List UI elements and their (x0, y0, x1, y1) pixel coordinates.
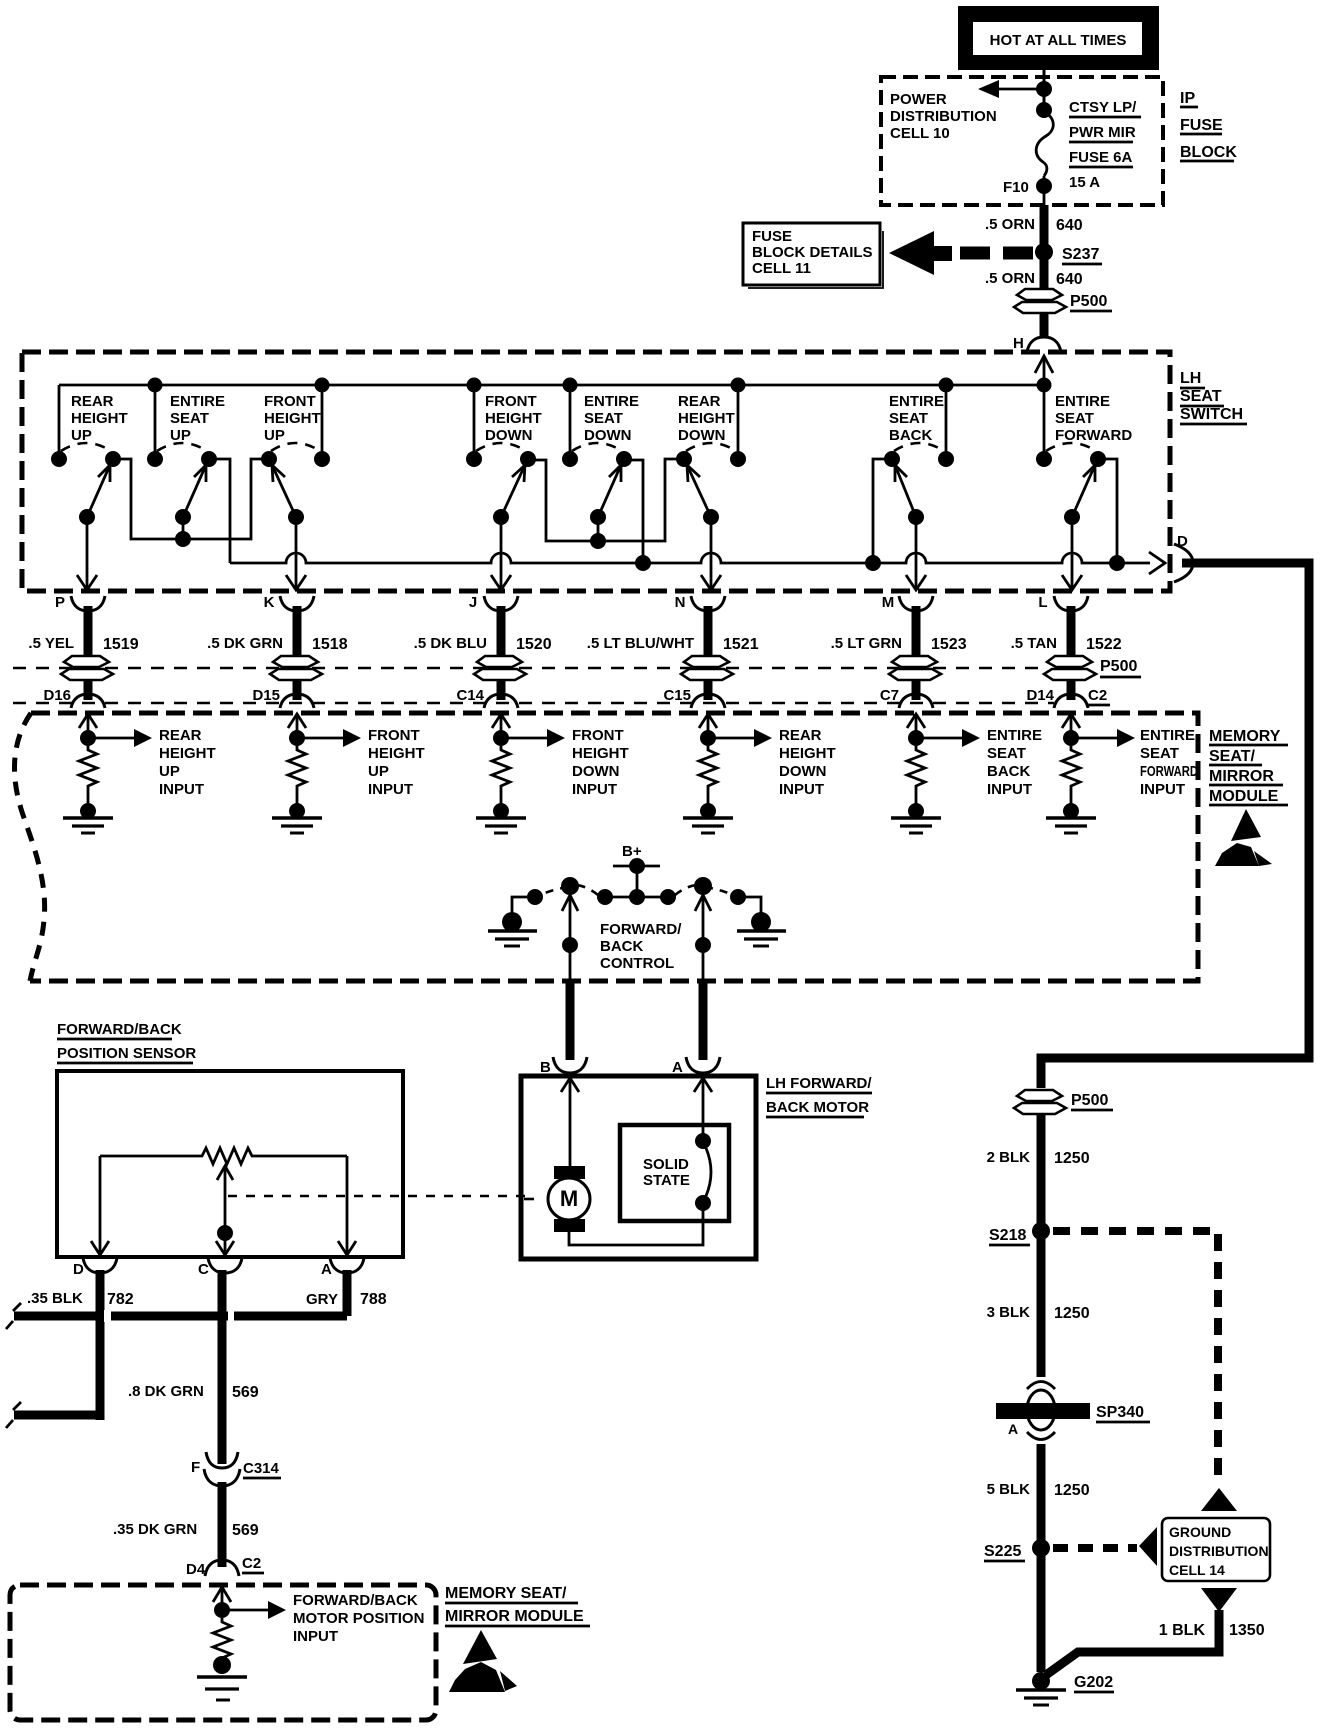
svg-text:DOWN: DOWN (678, 427, 726, 444)
wire to H (1040, 313, 1049, 338)
svg-text:POWER: POWER (890, 91, 947, 108)
svg-text:C314: C314 (243, 1460, 280, 1477)
svg-text:L: L (1038, 594, 1047, 611)
module input FRONT HEIGHT UP INPUT (272, 714, 425, 833)
svg-text:REAR: REAR (678, 393, 721, 410)
node outer right (730, 889, 746, 905)
svg-text:INPUT: INPUT (293, 1628, 338, 1645)
wire entire-seat-down pivot junction (590, 517, 606, 549)
svg-text:DOWN: DOWN (584, 427, 632, 444)
svg-text:LH: LH (1180, 370, 1201, 387)
wire to module pin C7 (912, 680, 921, 700)
svg-text:1519: 1519 (103, 636, 139, 653)
dashed wire wiper to motor (228, 1195, 533, 1198)
svg-text:FUSE: FUSE (1180, 117, 1223, 134)
svg-text:INPUT: INPUT (1140, 781, 1185, 798)
wire 1 BLK 1350 (1046, 1610, 1219, 1675)
svg-text:1521: 1521 (723, 636, 759, 653)
svg-text:HEIGHT: HEIGHT (779, 745, 836, 762)
arrow into box (B) (561, 1078, 579, 1092)
svg-text:FORWARD/: FORWARD/ (600, 921, 682, 938)
switch ENTIRE SEAT BACK (884, 385, 954, 525)
wire net rear-up/front-up (113, 459, 269, 539)
svg-text:569: 569 (232, 1522, 259, 1539)
wire entire-seat-up to D bus (209, 459, 230, 563)
switch contact right (694, 877, 712, 895)
wire B+ top bus (59, 384, 1044, 387)
wire .5 ORN 640 upper (1040, 205, 1049, 244)
svg-text:SEAT/: SEAT/ (1209, 748, 1255, 765)
label IP FUSE BLOCK (1180, 90, 1237, 161)
svg-text:.8 DK GRN: .8 DK GRN (128, 1383, 204, 1400)
switch contact left (forward/back control) (561, 877, 579, 895)
wire to left ground (512, 897, 535, 916)
wire pivot N output (701, 517, 721, 590)
node bus junction x=155 (148, 378, 163, 393)
wire .5 TAN 1522 (1011, 606, 1122, 657)
connector P500 lens (lower) (1017, 1090, 1062, 1101)
connector plane C2 dashed line (13, 702, 1054, 705)
svg-text:HEIGHT: HEIGHT (678, 410, 735, 427)
wire .5 DK BLU 1520 (414, 606, 552, 657)
node outer left (527, 889, 543, 905)
pin D (1174, 533, 1193, 582)
svg-text:INPUT: INPUT (159, 781, 204, 798)
svg-text:P500: P500 (1070, 293, 1107, 310)
arrow to power distribution (993, 88, 1044, 91)
svg-text:GROUND: GROUND (1169, 1524, 1231, 1540)
svg-text:MEMORY: MEMORY (1209, 728, 1281, 745)
wire to right ground (738, 897, 761, 916)
wire D output bus (230, 553, 1150, 563)
svg-text:CELL 10: CELL 10 (890, 125, 950, 142)
svg-text:FORWARD/BACK: FORWARD/BACK (293, 1592, 418, 1609)
wire A control with arrow (695, 895, 711, 911)
svg-text:MOTOR POSITION: MOTOR POSITION (293, 1610, 424, 1627)
node bus junction x=1044 (1037, 378, 1052, 393)
svg-text:C15: C15 (663, 687, 691, 704)
arrow up (ground distribution ref) (1201, 1488, 1237, 1511)
label MEMORY SEAT/ MIRROR MODULE (1209, 728, 1288, 805)
wiper arrow (217, 1166, 233, 1180)
svg-text:15 A: 15 A (1069, 174, 1100, 191)
ground (197, 1675, 247, 1679)
node dot (1036, 81, 1052, 97)
svg-text:SEAT: SEAT (1055, 410, 1094, 427)
module input REAR HEIGHT UP INPUT (63, 714, 216, 833)
svg-text:FORWARD/BACK: FORWARD/BACK (57, 1021, 182, 1038)
svg-text:SWITCH: SWITCH (1180, 406, 1243, 423)
svg-text:A: A (672, 1059, 683, 1076)
wire B+ to center (636, 866, 639, 897)
svg-text:.5 YEL: .5 YEL (28, 635, 74, 652)
svg-text:1520: 1520 (516, 636, 552, 653)
pin D15 (memory seat/mirror module) (252, 687, 314, 708)
wire .35 BLK 782 (96, 1270, 105, 1420)
svg-text:D15: D15 (252, 687, 280, 704)
svg-text:HOT AT ALL TIMES: HOT AT ALL TIMES (990, 32, 1127, 49)
svg-text:ENTIRE: ENTIRE (1140, 727, 1195, 744)
wire pivot P output (77, 517, 97, 590)
svg-text:MIRROR MODULE: MIRROR MODULE (445, 1608, 584, 1625)
thick wire to B pin (566, 979, 575, 1060)
svg-text:S237: S237 (1062, 246, 1099, 263)
svg-text:HEIGHT: HEIGHT (368, 745, 425, 762)
svg-text:BACK: BACK (600, 938, 643, 955)
memory seat/mirror module box (30, 713, 1198, 981)
svg-text:788: 788 (360, 1291, 387, 1308)
resistor (213, 1618, 231, 1662)
pin C14 (memory seat/mirror module) (456, 687, 518, 708)
wire B control with arrow (562, 895, 578, 911)
wire to module pin D16 (84, 680, 93, 700)
svg-text:DOWN: DOWN (572, 763, 620, 780)
svg-text:D4: D4 (186, 1561, 206, 1578)
svg-text:C2: C2 (242, 1555, 261, 1572)
svg-text:P: P (55, 594, 65, 611)
wire pivot K output (286, 517, 306, 590)
svg-text:FRONT: FRONT (572, 727, 624, 744)
svg-text:FUSE 6A: FUSE 6A (1069, 149, 1133, 166)
connector P500 lens P (61, 656, 113, 680)
wire .5 DK GRN 1518 (207, 606, 348, 657)
svg-text:CELL 14: CELL 14 (1169, 1562, 1225, 1578)
svg-text:ENTIRE: ENTIRE (889, 393, 944, 410)
svg-text:SEAT: SEAT (170, 410, 209, 427)
splice S225 (1032, 1539, 1050, 1557)
switch ENTIRE SEAT DOWN (562, 385, 639, 525)
wire to module pin C15 (704, 680, 713, 700)
node dot (1036, 102, 1052, 118)
solid state box (620, 1125, 729, 1221)
connector P500 lens J (474, 656, 526, 680)
ground (1046, 816, 1096, 820)
svg-text:FORWARD: FORWARD (1055, 427, 1132, 444)
svg-text:K: K (264, 594, 275, 611)
switch REAR HEIGHT UP (51, 385, 128, 525)
svg-text:ENTIRE: ENTIRE (170, 393, 225, 410)
pin J (LH seat switch) (469, 594, 518, 611)
svg-text:GRY: GRY (306, 1291, 338, 1308)
module input forward/back motor position (213, 1587, 231, 1602)
svg-text:UP: UP (264, 427, 285, 444)
svg-text:ENTIRE: ENTIRE (987, 727, 1042, 744)
svg-text:B: B (540, 1059, 551, 1076)
svg-text:HEIGHT: HEIGHT (485, 410, 542, 427)
svg-text:D14: D14 (1026, 687, 1054, 704)
svg-text:H: H (1013, 335, 1024, 352)
svg-text:CONTROL: CONTROL (600, 955, 674, 972)
splice S237 (1035, 243, 1053, 261)
arrow to fuse block details (889, 231, 934, 275)
svg-text:BACK: BACK (889, 427, 932, 444)
ground distribution cell 14 box (1162, 1518, 1270, 1581)
module input REAR HEIGHT DOWN INPUT (683, 714, 836, 833)
wire left leg (99, 1156, 102, 1255)
arrow to pin D (1149, 552, 1165, 574)
pin K (LH seat switch) (264, 594, 314, 611)
wire net front-down/rear-down (528, 459, 684, 541)
svg-text:782: 782 (107, 1291, 134, 1308)
wire pivot L output (1062, 517, 1082, 590)
switch FRONT HEIGHT DOWN (466, 385, 542, 525)
svg-text:P500: P500 (1071, 1092, 1108, 1109)
svg-text:HEIGHT: HEIGHT (71, 410, 128, 427)
svg-text:.5 TAN: .5 TAN (1011, 635, 1057, 652)
ground (683, 816, 733, 820)
ground G202 (1032, 1672, 1050, 1690)
dashed wire to fuse block details (960, 247, 1034, 260)
wire .8 DK GRN 569 (218, 1270, 227, 1464)
svg-text:.5 DK GRN: .5 DK GRN (207, 635, 283, 652)
wire .5 LT BLU/WHT 1521 (587, 606, 759, 657)
svg-text:1523: 1523 (931, 636, 967, 653)
wire to module pin D15 (293, 680, 302, 700)
LH forward/back motor box (521, 1076, 756, 1259)
svg-text:640: 640 (1056, 217, 1083, 234)
wire entire-seat-back to D bus (865, 459, 892, 571)
wire entire-seat-down to D bus (624, 460, 651, 571)
svg-text:SEAT: SEAT (584, 410, 623, 427)
HOT AT ALL TIMES box (958, 6, 1159, 70)
dashed arcs (572, 885, 598, 895)
svg-text:B+: B+ (622, 843, 642, 860)
wire right leg (346, 1156, 349, 1255)
thick wire from pin D to right edge and down (1041, 563, 1309, 1088)
connector P500 lens N (681, 656, 733, 680)
svg-text:640: 640 (1056, 271, 1083, 288)
svg-text:IP: IP (1180, 90, 1195, 107)
arrow into box (A) (694, 1078, 712, 1092)
wire control center bus (598, 896, 675, 899)
svg-text:P500: P500 (1100, 658, 1137, 675)
label POWER DISTRIBUTION CELL 10 (890, 91, 997, 142)
node bus junction x=474 (467, 378, 482, 393)
svg-text:J: J (469, 594, 477, 611)
svg-text:C14: C14 (456, 687, 484, 704)
connector SP340 (996, 1382, 1090, 1440)
module left curved border (15, 713, 45, 981)
svg-text:1522: 1522 (1086, 636, 1122, 653)
switch ENTIRE SEAT UP (147, 385, 225, 525)
wire pivot M output (906, 517, 926, 590)
svg-text:HEIGHT: HEIGHT (159, 745, 216, 762)
svg-text:SEAT: SEAT (1140, 745, 1179, 762)
svg-text:.5 LT BLU/WHT: .5 LT BLU/WHT (587, 635, 694, 652)
svg-text:REAR: REAR (71, 393, 114, 410)
svg-text:INPUT: INPUT (368, 781, 413, 798)
svg-text:SEAT: SEAT (987, 745, 1026, 762)
svg-text:LH FORWARD/: LH FORWARD/ (766, 1075, 872, 1092)
svg-text:F: F (191, 1459, 200, 1476)
svg-text:HEIGHT: HEIGHT (264, 410, 321, 427)
ground (476, 816, 526, 820)
wire 2 BLK 1250 (1037, 1114, 1046, 1377)
IP FUSE BLOCK dashed box (881, 77, 1163, 205)
connector P500 lens L (1044, 656, 1096, 680)
svg-text:569: 569 (232, 1384, 259, 1401)
wire to module pin C14 (497, 680, 506, 700)
dashed wire S225 to ground distribution (1053, 1544, 1137, 1552)
svg-text:SP340: SP340 (1096, 1404, 1144, 1421)
module input FRONT HEIGHT DOWN INPUT (476, 714, 629, 833)
ground left (488, 929, 537, 933)
svg-text:FORWARD: FORWARD (1140, 763, 1198, 780)
svg-text:BACK MOTOR: BACK MOTOR (766, 1099, 869, 1116)
ground (891, 816, 941, 820)
connector plane P500 dashed line (13, 667, 1046, 670)
arrow left (ground distribution ref) (1139, 1527, 1157, 1566)
node bus junction x=570 (563, 378, 578, 393)
svg-text:HEIGHT: HEIGHT (572, 745, 629, 762)
svg-text:A: A (1008, 1421, 1018, 1437)
label LH SEAT SWITCH (1180, 370, 1247, 424)
svg-text:FRONT: FRONT (485, 393, 537, 410)
svg-text:G202: G202 (1074, 1674, 1113, 1691)
switch FRONT HEIGHT UP (261, 385, 330, 525)
svg-text:1250: 1250 (1054, 1482, 1090, 1499)
wire to module pin D14 (1067, 680, 1076, 700)
dashed wire S218 to ground distribution (1053, 1231, 1218, 1486)
svg-text:BACK: BACK (987, 763, 1030, 780)
svg-text:M: M (882, 594, 895, 611)
svg-text:2 BLK: 2 BLK (987, 1149, 1031, 1166)
pin D16 (memory seat/mirror module) (43, 687, 105, 708)
svg-text:CTSY LP/: CTSY LP/ (1069, 99, 1137, 116)
svg-text:1518: 1518 (312, 636, 348, 653)
pin N (LH seat switch) (675, 594, 725, 611)
wire .35 DK GRN 569 (218, 1482, 227, 1567)
wire bar2 to left (782 continuation) (14, 1411, 104, 1420)
wire GRY 788 (343, 1270, 352, 1316)
svg-text:MODULE: MODULE (1209, 788, 1279, 805)
svg-text:MIRROR: MIRROR (1209, 768, 1274, 785)
wire .5 LT GRN 1523 (831, 606, 967, 657)
svg-text:PWR MIR: PWR MIR (1069, 124, 1136, 141)
connector P500 lens K (270, 656, 322, 680)
svg-text:1250: 1250 (1054, 1305, 1090, 1322)
pin P (LH seat switch) (55, 594, 105, 611)
svg-text:C7: C7 (880, 687, 899, 704)
FUSE BLOCK DETAILS CELL 11 box (743, 223, 880, 285)
pin C7 (memory seat/mirror module) (880, 687, 933, 708)
thick wire to A pin (699, 979, 708, 1060)
pin C15 (memory seat/mirror module) (663, 687, 725, 708)
svg-text:STATE: STATE (643, 1172, 690, 1189)
svg-text:REAR: REAR (779, 727, 822, 744)
svg-text:D16: D16 (43, 687, 71, 704)
svg-text:UP: UP (159, 763, 180, 780)
connector P500 lens M (889, 656, 941, 680)
svg-text:UP: UP (170, 427, 191, 444)
node bus junction x=322 (315, 378, 330, 393)
svg-text:S225: S225 (984, 1543, 1021, 1560)
pin M (LH seat switch) (882, 594, 933, 611)
pin D14 (memory seat/mirror module) (1026, 687, 1088, 708)
wire motor to solid state (569, 1206, 703, 1245)
svg-text:S218: S218 (989, 1227, 1026, 1244)
ESD symbol (lower module) (449, 1630, 517, 1692)
wire pivot J output (491, 517, 511, 590)
ground (272, 816, 322, 820)
svg-text:.5 DK BLU: .5 DK BLU (414, 635, 487, 652)
dashed tick at motor left (524, 1198, 534, 1201)
switch ENTIRE SEAT FORWARD (1036, 385, 1132, 525)
LH seat switch box (22, 352, 1170, 591)
arrow into switch (1035, 356, 1053, 373)
solid state contacts (695, 1133, 711, 1149)
node bus junction x=946 (939, 378, 954, 393)
svg-text:1 BLK: 1 BLK (1159, 1622, 1206, 1639)
svg-text:MEMORY SEAT/: MEMORY SEAT/ (445, 1585, 567, 1602)
svg-text:ENTIRE: ENTIRE (584, 393, 639, 410)
svg-text:C2: C2 (1088, 687, 1107, 704)
svg-text:C: C (198, 1261, 209, 1278)
svg-text:DISTRIBUTION: DISTRIBUTION (1169, 1543, 1269, 1559)
wire entire-seat-forward to D bus (1098, 459, 1125, 571)
forward/back position sensor box (57, 1071, 403, 1257)
svg-text:INPUT: INPUT (572, 781, 617, 798)
svg-text:SEAT: SEAT (889, 410, 928, 427)
svg-text:.35 BLK: .35 BLK (27, 1290, 83, 1307)
wire bar to left (782/788 continuation) (14, 1312, 347, 1321)
svg-text:1250: 1250 (1054, 1150, 1090, 1167)
module input ENTIRE SEAT BACK INPUT (891, 714, 1042, 833)
svg-text:INPUT: INPUT (779, 781, 824, 798)
svg-text:.35 DK GRN: .35 DK GRN (113, 1521, 197, 1538)
svg-text:UP: UP (368, 763, 389, 780)
ground right (737, 929, 786, 933)
svg-text:ENTIRE: ENTIRE (1055, 393, 1110, 410)
wire entire-seat-up pivot junction (175, 517, 191, 547)
svg-text:FUSE: FUSE (752, 228, 792, 245)
svg-text:DOWN: DOWN (485, 427, 533, 444)
switch REAR HEIGHT DOWN (676, 385, 746, 525)
node bus junction x=738 (731, 378, 746, 393)
svg-text:UP: UP (71, 427, 92, 444)
svg-text:3 BLK: 3 BLK (987, 1304, 1031, 1321)
svg-text:M: M (560, 1186, 578, 1211)
resistor (potentiometer) (100, 1148, 347, 1164)
svg-text:BLOCK: BLOCK (1180, 144, 1237, 161)
svg-text:SEAT: SEAT (1180, 388, 1222, 405)
splice S218 (1032, 1222, 1050, 1240)
wire 5 BLK 1250 (1037, 1444, 1046, 1672)
memory seat/mirror module box (lower) (10, 1585, 436, 1720)
svg-text:CELL 11: CELL 11 (752, 260, 811, 277)
svg-text:DOWN: DOWN (779, 763, 827, 780)
fuse labels CTSY LP / PWR MIR / FUSE 6A / 15 A (1069, 99, 1141, 191)
motor M (548, 1166, 590, 1232)
svg-text:INPUT: INPUT (987, 781, 1032, 798)
svg-text:D: D (73, 1261, 84, 1278)
svg-text:5 BLK: 5 BLK (987, 1481, 1031, 1498)
svg-text:SOLID: SOLID (643, 1156, 689, 1173)
wire .5 YEL 1519 (28, 606, 138, 657)
svg-text:F10: F10 (1003, 179, 1029, 196)
wire from HOT box down (1043, 70, 1046, 112)
svg-text:DISTRIBUTION: DISTRIBUTION (890, 108, 997, 125)
svg-text:REAR: REAR (159, 727, 202, 744)
wire .5 ORN 640 lower (1040, 260, 1049, 290)
svg-text:POSITION SENSOR: POSITION SENSOR (57, 1045, 196, 1062)
svg-text:.5 ORN: .5 ORN (985, 216, 1035, 233)
svg-text:.5 ORN: .5 ORN (985, 270, 1035, 287)
connector P500 lens (1014, 289, 1066, 313)
arrow down from box (1201, 1588, 1237, 1612)
svg-text:FRONT: FRONT (264, 393, 316, 410)
pin L (LH seat switch) (1038, 594, 1088, 611)
